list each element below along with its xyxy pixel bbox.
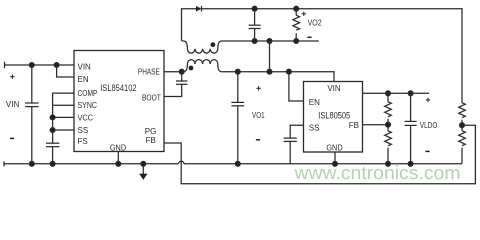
wire VO1 line [238, 72, 334, 82]
node L1 secondary phase dot [211, 42, 216, 47]
svg-text:VIN: VIN [327, 84, 341, 93]
svg-text:FB: FB [146, 136, 156, 145]
resistor R_VO2 load [293, 9, 300, 41]
node junction U2 FB node [386, 122, 391, 127]
wire U2 FB stub [363, 124, 389, 126]
node VO1 + mark [256, 86, 260, 90]
op-amp U2 ISL80505 body [304, 82, 363, 153]
svg-text:VCC: VCC [78, 113, 94, 122]
node junction VO2 divider mid [460, 123, 465, 128]
svg-text:EN: EN [309, 98, 320, 107]
node junction VLDO line at C_VLDO [408, 91, 413, 96]
node junction rail at bus cap [50, 161, 55, 166]
node junction on VIN rail at input cap [29, 63, 34, 68]
svg-text:ISL854102: ISL854102 [100, 83, 136, 94]
node junction rail at C_VLDO [408, 161, 413, 166]
node junction bus at VCC [50, 115, 55, 120]
node L1 phase dot [189, 66, 194, 71]
resistor R3 upper feedback [385, 93, 392, 124]
wire bottom ground rail [4, 161, 462, 164]
node junction rail at U2 GND [333, 161, 338, 166]
node junction VLDO line at R3 [386, 91, 391, 96]
svg-text:SS: SS [309, 124, 320, 133]
node junction mid line at C_VO2 [252, 39, 257, 44]
svg-text:GND: GND [110, 144, 126, 153]
svg-text:PHASE: PHASE [138, 68, 160, 77]
wire secondary top loop [182, 9, 197, 41]
node junction mid line at R_VO2 [294, 39, 299, 44]
capacitor C_VO1 [231, 72, 244, 164]
svg-text:GND: GND [326, 143, 342, 152]
node junction mid line at drop to VO1 [267, 39, 272, 44]
node VO1 - mark [256, 139, 260, 141]
op-amp U1 ISL854102 body [74, 51, 164, 152]
resistor R6 VO2 divider bottom [459, 125, 466, 164]
capacitor C_IN input cap [25, 65, 38, 164]
wire EN stub to U1 [57, 65, 74, 77]
wire FB return loop to U1 [164, 125, 475, 184]
node junction VO1 at U2 EN takeoff [287, 69, 292, 74]
svg-text:VIN: VIN [78, 63, 92, 72]
node labels U1 pins [78, 63, 161, 153]
node labels U2 pins [309, 84, 359, 152]
node VLDO + mark [426, 98, 430, 102]
node VIN- terminal tick [3, 161, 5, 166]
inductor L1 secondary winding [182, 41, 319, 53]
capacitor C_VLDO [405, 93, 417, 164]
node junction top line at R_VO2 [294, 6, 299, 11]
node junction rail at R4 [386, 161, 391, 166]
node VIN - mark [10, 137, 14, 139]
wire left pin bus (COMP/SYNC/VCC/SS) [53, 93, 74, 143]
svg-text:www.cntronics.com: www.cntronics.com [293, 163, 460, 184]
node junction rail at input cap [29, 161, 34, 166]
svg-text:PG: PG [145, 127, 157, 136]
wire U2 GND pin to rail [334, 152, 336, 164]
wire U1 GND pin to rail [117, 152, 119, 164]
wire top line to VO2 and right drop [202, 9, 463, 103]
svg-text:ISL80505: ISL80505 [318, 111, 350, 122]
wire mid line drop to VO1 [269, 41, 271, 72]
svg-text:SS: SS [78, 126, 89, 135]
wire top VIN rail [5, 64, 75, 66]
svg-text:COMP: COMP [78, 89, 98, 98]
node junction VO1 at output cap [235, 69, 240, 74]
capacitor C_SS1 on bus [46, 143, 59, 164]
capacitor C_VO2 [249, 9, 261, 41]
svg-text:VIN: VIN [6, 100, 20, 109]
capacitor C_SS2 [284, 138, 297, 164]
diode D1 [196, 6, 202, 12]
node junction rail at U1 GND [116, 161, 121, 166]
node junction rail at ground symbol [141, 161, 146, 166]
node PHASE junction [179, 69, 184, 74]
node junction VO1 at mid-line drop [267, 69, 272, 74]
node VO2 - mark [307, 36, 311, 38]
wire PHASE pin [164, 71, 182, 73]
svg-text:VO1: VO1 [252, 111, 265, 120]
node VO2 + mark [302, 12, 306, 16]
inductor L1 primary winding [182, 60, 238, 72]
node junction top line at C_VO2 [252, 6, 257, 11]
ground symbol [139, 164, 147, 180]
wire U2 EN connection [289, 72, 304, 101]
svg-text:FS: FS [78, 137, 88, 146]
node VIN+ terminal tick [4, 62, 6, 69]
svg-text:EN: EN [78, 75, 89, 84]
node VLDO - mark [425, 150, 429, 152]
resistor R4 lower feedback [385, 125, 392, 164]
svg-text:VO2: VO2 [308, 19, 322, 28]
svg-text:BOOT: BOOT [142, 93, 161, 102]
wire VLDO output line [363, 92, 430, 94]
node junction bus at SS [50, 128, 55, 133]
resistor R5 VO2 divider top [459, 103, 466, 126]
svg-text:SYNC: SYNC [78, 101, 98, 110]
wire U2 SS stub [290, 125, 303, 138]
node VIN + mark [10, 75, 14, 79]
capacitor C_BOOT [164, 72, 187, 97]
svg-text:VLDO: VLDO [420, 121, 437, 130]
node junction on VIN rail at EN takeoff [54, 63, 59, 68]
node junction rail at C_VO1 [235, 161, 240, 166]
svg-text:FB: FB [349, 121, 359, 130]
